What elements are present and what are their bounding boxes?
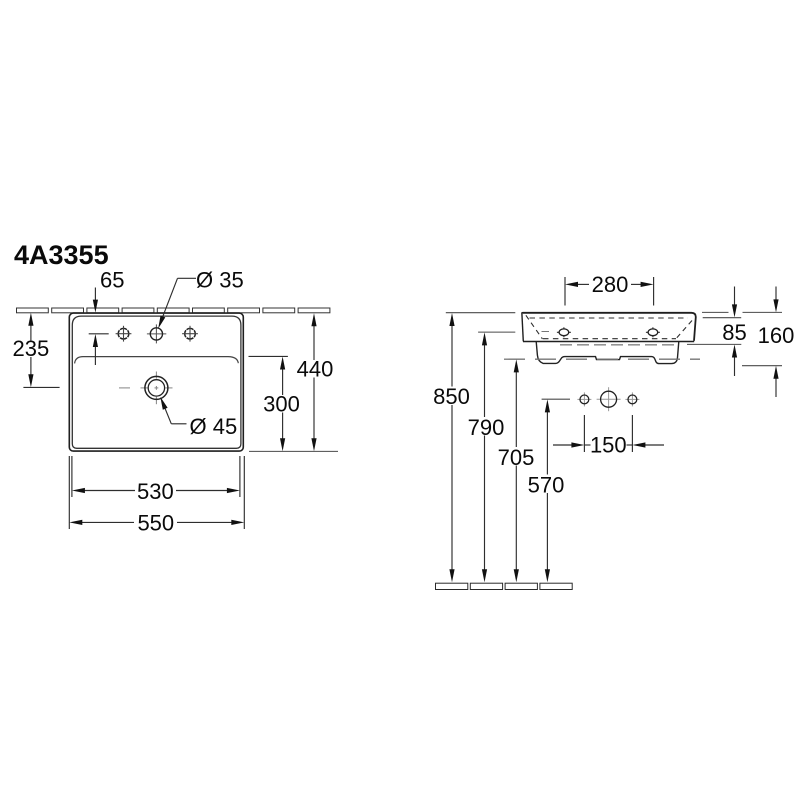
hole centreline dash (542, 331, 550, 333)
svg-text:Ø 45: Ø 45 (190, 414, 238, 439)
body left edge (522, 314, 523, 342)
dim 280 (565, 277, 654, 306)
leader Ø35 (158, 278, 196, 328)
hidden outlet dashed (560, 344, 675, 346)
deck edge line (plan) (75, 357, 239, 364)
svg-text:570: 570 (528, 472, 565, 497)
wall connection small circle left (577, 392, 591, 406)
extension line 790 level (478, 331, 515, 333)
basin outer rim (plan) (69, 313, 243, 451)
wall connection big circle (597, 387, 621, 411)
svg-text:850: 850 (433, 384, 470, 409)
dim 65 upper arrow (93, 288, 98, 313)
basin body (front view) (522, 313, 695, 341)
hidden bowl right diagonal (676, 321, 693, 340)
extension line top left (850) (446, 312, 516, 314)
svg-text:440: 440 (297, 356, 334, 381)
dim 300 vertical (249, 356, 288, 451)
bottom extension line right (plan) (249, 450, 338, 452)
wall tile row (plan view) (17, 308, 330, 313)
svg-text:160: 160 (758, 323, 795, 348)
svg-text:4A3355: 4A3355 (14, 240, 109, 270)
svg-text:85: 85 (722, 320, 746, 345)
drain hole (119, 372, 173, 405)
svg-text:790: 790 (468, 415, 505, 440)
dim 570 vertical (545, 399, 550, 582)
extension line 570 level (542, 398, 570, 400)
dim 65 lower arrow and hole centre tick (89, 334, 109, 365)
grey long-dash line 705 level (504, 358, 700, 360)
hidden bowl left diagonal (526, 315, 543, 339)
dim 440 vertical (311, 313, 316, 451)
fixing hole right (front) (646, 327, 660, 337)
svg-text:530: 530 (137, 479, 174, 504)
dim 850 vertical (449, 313, 454, 582)
dim 235 vertical (23, 313, 59, 388)
leader Ø45 (160, 397, 186, 424)
svg-text:150: 150 (590, 432, 627, 457)
apron / lower body (front view) (536, 342, 679, 364)
centre tap hole circle (147, 324, 166, 343)
svg-text:280: 280 (592, 272, 629, 297)
svg-text:705: 705 (498, 445, 535, 470)
dim 160 (773, 287, 778, 398)
basin inner rim (plan) (72, 316, 241, 448)
dim 790 vertical (482, 332, 487, 582)
body top edge (522, 313, 696, 341)
svg-text:300: 300 (263, 391, 300, 416)
floor tile row (front view) (436, 583, 573, 589)
dim 705 vertical (514, 359, 519, 582)
dim 550 horizontal (69, 456, 244, 529)
dim 85 (732, 287, 737, 377)
fixing hole left (front) (557, 327, 571, 337)
svg-text:Ø 35: Ø 35 (196, 268, 244, 293)
svg-text:550: 550 (137, 510, 174, 535)
left optional tap hole cross (116, 326, 132, 342)
hidden bowl bottom dashed (543, 338, 676, 340)
hidden rim dashed line (530, 317, 689, 319)
svg-text:65: 65 (100, 268, 124, 293)
wall connection small circle right (625, 392, 639, 406)
dim 150 (553, 415, 664, 452)
svg-text:235: 235 (13, 336, 50, 361)
right optional tap hole cross (182, 326, 198, 342)
body bottom edge (523, 341, 694, 343)
extension lines right side 85/160 (687, 312, 782, 365)
dim 530 horizontal (72, 456, 240, 497)
